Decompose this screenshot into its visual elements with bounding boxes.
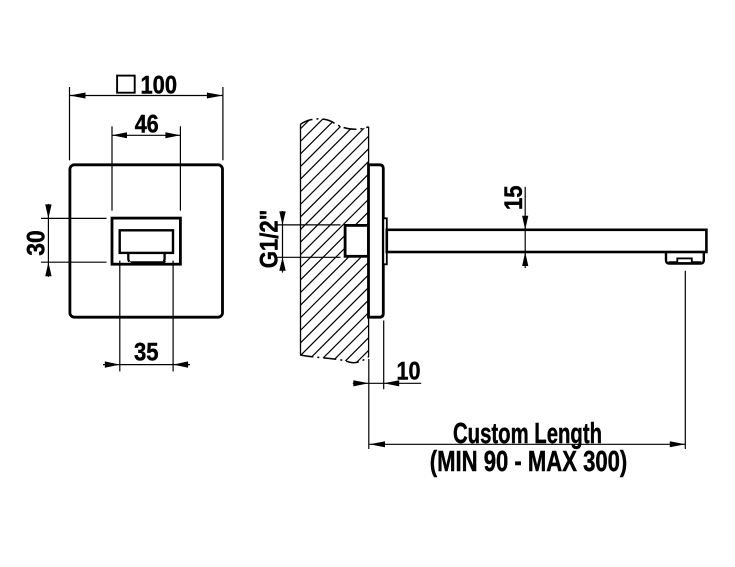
- side view mounting plate: [369, 165, 384, 317]
- dim 10: dimension line with outside arrows and tail: [353, 380, 421, 386]
- dim 100: dimension line with arrows: [70, 93, 223, 99]
- dim 35: extension lines: [120, 261, 173, 372]
- dim 35: dimension line with outside arrows: [103, 361, 190, 367]
- dim G1/2: dimension line with outside arrows: [279, 211, 285, 273]
- dim 30: extension lines: [41, 218, 107, 262]
- front view spout opening outer rectangle: [112, 218, 180, 264]
- front view aerator detail: [128, 253, 166, 264]
- dim 10: extension lines: [369, 321, 384, 450]
- dim custom length: right extension line from aerator: [684, 271, 686, 449]
- wall left edge: [300, 124, 302, 355]
- dim 30: dimension line with outside arrows: [45, 204, 51, 277]
- svg-text:15: 15: [500, 186, 528, 211]
- side view collar behind spout: [383, 218, 387, 264]
- dim 100: square symbol: [117, 76, 135, 93]
- svg-text:100: 100: [141, 72, 178, 100]
- side view aerator at spout tip: [666, 251, 704, 264]
- wall threaded inlet G1/2 (white fill over hatch): [345, 225, 368, 256]
- front view spout opening inner rectangle: [120, 230, 173, 253]
- wall face (right edge): [368, 127, 370, 357]
- wall top break line (wavy): [301, 119, 369, 129]
- dim G1/2: extension lines: [278, 225, 341, 257]
- front view plate (square 100x100): [70, 165, 223, 317]
- dim 100: extension lines: [70, 87, 223, 160]
- svg-text:G1/2": G1/2": [255, 210, 283, 269]
- dim 15: dimension line with outside arrows: [522, 187, 528, 268]
- dim custom length: dimension line with arrows: [370, 441, 686, 447]
- side view spout tube: [387, 230, 707, 252]
- svg-text:(MIN 90 - MAX 300): (MIN 90 - MAX 300): [430, 446, 628, 478]
- dim 46: dimension line with arrows: [112, 132, 180, 138]
- svg-text:10: 10: [397, 357, 421, 385]
- wall bottom break line (wavy): [301, 355, 369, 363]
- dim 46: extension lines: [112, 126, 180, 210]
- svg-text:35: 35: [134, 338, 159, 366]
- svg-text:46: 46: [135, 110, 159, 138]
- svg-text:30: 30: [23, 230, 51, 256]
- svg-text:Custom Length: Custom Length: [453, 418, 602, 450]
- wall hatching (45 deg): [4, 100, 657, 400]
